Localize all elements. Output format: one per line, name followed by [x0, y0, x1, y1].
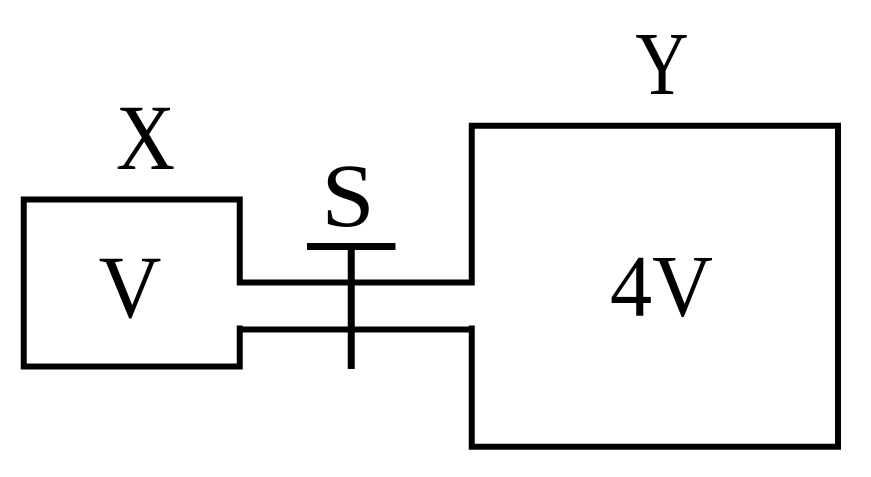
svg-text:Y: Y [635, 14, 688, 114]
wire bottom (Y to X) [237, 327, 474, 333]
svg-text:S: S [321, 147, 374, 247]
svg-text:4V: 4V [610, 237, 713, 335]
switch S bar [307, 243, 396, 250]
svg-text:V: V [99, 238, 162, 337]
svg-text:X: X [116, 86, 175, 189]
switch S stem [348, 243, 355, 369]
wire top (X to Y) [237, 280, 474, 286]
box Y (component 4V) [472, 126, 838, 447]
box X (component V) [24, 200, 240, 367]
